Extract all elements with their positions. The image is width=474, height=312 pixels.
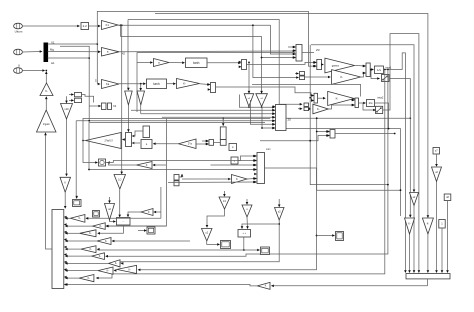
svg-text:K-: K- xyxy=(88,278,91,280)
block intm1 xyxy=(141,140,152,149)
wire Ukum to gain box xyxy=(22,25,80,28)
label com xyxy=(266,148,271,151)
wire row7 out xyxy=(65,262,109,265)
gain right mid xyxy=(232,175,248,184)
wire u2a poly xyxy=(110,220,117,223)
wire mmr in2 xyxy=(260,134,329,141)
wire A1 down xyxy=(127,105,130,132)
inport 2 xyxy=(14,49,23,55)
wire row2 in xyxy=(106,225,167,228)
wire 1Jb top xyxy=(223,191,226,197)
label X1 xyxy=(51,41,55,45)
wire Kc mux xyxy=(352,99,355,102)
wire row6 out xyxy=(65,255,92,258)
saturation S2 xyxy=(75,98,82,102)
gain Km up xyxy=(40,83,53,96)
gain 1J down xyxy=(114,175,126,190)
wire sw1 out xyxy=(390,79,411,120)
wire M4 int2 xyxy=(359,102,367,105)
wire y128 right xyxy=(388,128,401,216)
wire u9 down xyxy=(413,206,416,274)
svg-text:K-: K- xyxy=(336,96,339,100)
wire row5 out xyxy=(65,248,81,251)
wire A2 down xyxy=(140,105,142,114)
wire G3 tanh2 xyxy=(119,82,146,85)
gain x10 tri xyxy=(61,104,73,120)
wire Kt M2 xyxy=(200,83,211,86)
wire vs1b xyxy=(132,142,140,144)
svg-text:Z3: Z3 xyxy=(316,48,320,52)
wire vs1 xyxy=(132,131,143,136)
block X2 pair xyxy=(102,103,112,110)
wire 2.2 to G1 xyxy=(89,25,101,28)
gain row4 xyxy=(97,238,111,245)
wire tanh1 out xyxy=(207,62,241,65)
label Z5 xyxy=(288,118,292,122)
svg-text:25: 25 xyxy=(288,118,292,122)
deriv B1 xyxy=(244,94,254,107)
wire z5 w2 xyxy=(131,109,275,112)
wire sat out xyxy=(82,95,94,103)
svg-text:K-: K- xyxy=(100,226,103,228)
mux com xyxy=(254,153,264,184)
wire sw2 in xyxy=(363,103,376,111)
wire teta1b xyxy=(105,70,388,258)
wire y84 line xyxy=(252,84,361,96)
wire mux to 1gain xyxy=(44,132,51,249)
wire sc6 in xyxy=(317,234,336,237)
wire u10 down xyxy=(435,182,438,274)
wire x161 vert xyxy=(160,187,162,218)
switch SW1 xyxy=(382,75,390,82)
block const1 xyxy=(439,220,445,229)
wire u2a top xyxy=(108,197,111,203)
wire P1 out xyxy=(321,63,324,66)
svg-text:teta2: teta2 xyxy=(378,96,384,100)
wire Kd up xyxy=(328,104,354,109)
wire gama mux xyxy=(355,65,366,68)
wire sw2 out xyxy=(383,34,421,273)
wire loop1 xyxy=(83,119,270,164)
wire u2c sc4 xyxy=(207,241,220,246)
label U xyxy=(18,64,20,68)
wire P2 in2 xyxy=(252,24,299,78)
wire x128 down xyxy=(127,20,130,91)
gain a2 xyxy=(154,59,170,67)
gain row5 xyxy=(81,246,96,253)
mux M2 xyxy=(208,83,216,93)
wire tanh2 Kt xyxy=(167,82,177,85)
wire B2 down xyxy=(261,106,263,108)
gain Kd xyxy=(313,104,328,114)
gain Kt xyxy=(177,79,200,89)
wire M1 out xyxy=(247,61,317,64)
wire x311 down xyxy=(309,45,311,99)
wire z5 w1 xyxy=(239,95,275,109)
svg-text:K-: K- xyxy=(408,222,411,225)
block int1 xyxy=(375,66,384,74)
wire M2 out xyxy=(216,87,315,97)
gain row7 xyxy=(109,260,120,267)
svg-text:1/s: 1/s xyxy=(377,68,382,72)
wire M4b out xyxy=(318,97,326,100)
scope SC3 xyxy=(147,227,155,234)
gain row3 xyxy=(80,230,96,237)
scope SC4 xyxy=(221,241,231,249)
wire u8 down xyxy=(446,201,449,274)
gain KL left xyxy=(141,209,153,216)
deriv A2 xyxy=(137,91,145,105)
wire bot long xyxy=(271,285,428,288)
svg-text:K-: K- xyxy=(115,263,118,265)
deriv B2 xyxy=(256,94,268,107)
product boxes P3 xyxy=(304,103,309,111)
block L1 xyxy=(231,157,238,164)
wire P2 in1 xyxy=(295,72,299,75)
wire SM1 in2 xyxy=(197,143,209,146)
svg-text:teta1: teta1 xyxy=(386,65,392,69)
gain 1Jb down xyxy=(219,197,230,209)
block sum b xyxy=(238,230,251,238)
svg-text:X2: X2 xyxy=(113,104,117,108)
wire com bottom xyxy=(168,181,256,184)
svg-text:Mg: Mg xyxy=(50,48,54,52)
mux Z5 xyxy=(273,105,286,131)
svg-text:tanh: tanh xyxy=(153,82,159,86)
svg-text:K-: K- xyxy=(317,107,320,111)
wire sw1 in xyxy=(370,69,380,80)
svg-text:2.2: 2.2 xyxy=(83,24,88,28)
gain ub down xyxy=(242,205,252,217)
wire sc3 in xyxy=(138,229,147,232)
wire X1 vertical top xyxy=(97,11,316,67)
wire z5 out xyxy=(286,118,412,217)
gain u9 down xyxy=(410,193,419,206)
wire bot long2 xyxy=(65,283,257,286)
wire const1 down xyxy=(441,228,444,273)
circle box xyxy=(99,159,106,166)
wire mmr in1b xyxy=(316,130,329,133)
wire Z3 out xyxy=(302,52,314,54)
wire Mg to G2 xyxy=(48,51,101,54)
wire G2 out xyxy=(119,50,296,53)
wire int1 out xyxy=(384,53,407,273)
wire teta2 feedback xyxy=(275,103,388,130)
wire 2a out xyxy=(153,142,179,145)
wire sc1 in xyxy=(76,121,79,199)
mux M1 xyxy=(239,60,247,70)
wire r1 down xyxy=(408,234,411,273)
wire z5 w5 xyxy=(76,120,275,123)
scope SC6 xyxy=(336,232,344,241)
wire u2b down xyxy=(121,220,281,265)
wire r2 down xyxy=(427,234,430,273)
mux Z3 xyxy=(293,45,302,62)
svg-text:K-: K- xyxy=(79,218,82,220)
label 42 xyxy=(122,52,125,56)
gain row1 xyxy=(70,215,85,223)
wire sum sc5 xyxy=(243,237,260,251)
wire circ long xyxy=(106,159,257,162)
gain bottom left tri xyxy=(257,282,270,289)
gain G2 xyxy=(102,48,120,57)
gain small mid xyxy=(137,162,153,169)
svg-text:K1: K1 xyxy=(106,23,110,27)
block u7 xyxy=(433,148,440,155)
wire ub sum xyxy=(246,217,249,229)
wire 1J out xyxy=(118,189,121,217)
wire G1 out xyxy=(118,24,296,55)
block u8 xyxy=(444,194,451,201)
svg-text:K-: K- xyxy=(427,222,430,225)
wire x10 down xyxy=(65,119,68,176)
deriv A1 xyxy=(125,91,133,105)
wire X1 route xyxy=(48,43,101,85)
wire com in1 xyxy=(211,164,257,167)
wire x121 long xyxy=(120,25,123,174)
block intm2 xyxy=(229,144,237,151)
svg-text:com: com xyxy=(266,148,271,151)
svg-text:gama: gama xyxy=(332,63,339,67)
wire P3 in2 xyxy=(298,107,303,110)
block tanh1 xyxy=(186,58,208,68)
wire B1 down xyxy=(248,106,250,108)
wire M3 int1 xyxy=(370,68,374,71)
block poly xyxy=(117,218,131,226)
gain Kdown xyxy=(60,177,71,192)
gain u2a down xyxy=(105,204,115,221)
svg-text:K-: K- xyxy=(89,233,92,235)
label teta1 xyxy=(386,65,392,69)
svg-text:K-: K- xyxy=(107,270,110,272)
mux M4b xyxy=(311,93,317,103)
gain 2kalJ xyxy=(86,133,122,149)
mux P1 xyxy=(314,59,322,69)
svg-text:U: U xyxy=(18,64,20,68)
wire row3 out xyxy=(65,232,80,235)
gain u2b down xyxy=(275,208,285,221)
mux M3 xyxy=(363,63,370,77)
wire Z3 in1 xyxy=(288,46,296,49)
wire A2 top xyxy=(139,84,142,91)
wire suba in xyxy=(137,61,153,64)
wire poly to r3 xyxy=(97,225,123,235)
gain G1 xyxy=(102,21,119,30)
svg-text:tanh: tanh xyxy=(193,61,199,65)
label teta2 xyxy=(378,96,384,100)
mux mid right xyxy=(327,130,335,139)
wire Kdown out xyxy=(64,192,67,209)
wire mmr in1 xyxy=(316,117,402,191)
wire com out xyxy=(138,168,318,271)
wire 1g to Km xyxy=(45,96,48,110)
gain 1/gain up xyxy=(37,110,57,132)
wire L1 out xyxy=(238,155,256,161)
wire a2 tanh xyxy=(169,61,185,64)
label X2 xyxy=(113,104,117,108)
svg-text:1/s: 1/s xyxy=(368,101,373,105)
gain gama xyxy=(325,58,355,73)
label Z3 xyxy=(316,48,320,52)
wire u2b top xyxy=(278,199,281,207)
wire Km up xyxy=(45,71,48,83)
mux M5 xyxy=(126,133,135,147)
gain u10 down xyxy=(432,167,442,182)
saturation S1 xyxy=(75,93,82,97)
wire y44 right xyxy=(311,45,415,193)
svg-text:Ka: Ka xyxy=(106,82,110,86)
wire row2 out xyxy=(65,225,93,228)
gain row8 xyxy=(98,267,113,274)
svg-text:K-: K- xyxy=(45,89,48,93)
svg-text:K-: K- xyxy=(340,75,343,79)
gain G3 xyxy=(102,80,120,89)
scope SC5 xyxy=(261,247,270,255)
wire U to node xyxy=(22,69,47,72)
product boxes P2 xyxy=(300,72,305,80)
wire z5 w6 xyxy=(250,100,275,126)
wire mmr out xyxy=(335,133,396,135)
wire Kb mux xyxy=(361,72,366,77)
wire int2 out xyxy=(375,102,378,104)
svg-text:K: K xyxy=(146,163,148,167)
svg-text:K-: K- xyxy=(99,256,102,258)
inport Ukum xyxy=(14,23,23,33)
wire com in3 xyxy=(89,168,256,171)
mux M4 xyxy=(352,98,358,108)
wire u2b sum xyxy=(241,224,280,229)
gain row6 xyxy=(92,253,105,260)
label w1 xyxy=(51,61,55,65)
svg-text:+ +: + + xyxy=(243,232,247,235)
svg-text:x10: x10 xyxy=(64,107,69,111)
wire P3 Kd xyxy=(309,107,312,110)
svg-text:K-: K- xyxy=(183,81,186,85)
wire sat2 input xyxy=(69,99,74,102)
wire row8b out xyxy=(114,269,117,272)
svg-text:K-: K- xyxy=(105,241,108,243)
gain Kb xyxy=(332,70,361,85)
wire row9 out xyxy=(65,277,79,280)
wire z5 w4 xyxy=(162,116,275,119)
wire row1 out xyxy=(65,217,71,220)
wire pair out xyxy=(179,174,183,177)
svg-text:2*a: 2*a xyxy=(188,142,192,146)
wire SM1 out xyxy=(214,142,221,144)
wire gsm in xyxy=(152,164,166,167)
label 51 xyxy=(95,80,98,83)
inport U xyxy=(14,68,23,74)
block int2 xyxy=(367,100,375,107)
wire P3 in1 xyxy=(279,103,302,106)
wire M5 out xyxy=(122,138,126,141)
wire x10 top xyxy=(65,96,68,103)
wire y36 xyxy=(121,37,296,59)
gain 2a xyxy=(179,139,197,149)
wire bar out xyxy=(427,279,429,286)
wire top y13 xyxy=(155,14,429,219)
svg-text:Ukum: Ukum xyxy=(15,30,23,34)
wire grm out xyxy=(247,177,256,180)
wire row8 out xyxy=(65,269,98,272)
mux big left xyxy=(52,210,67,289)
scope SC1 xyxy=(73,200,82,207)
wire u7 down xyxy=(435,154,438,167)
block pair mid xyxy=(174,175,179,186)
wire ub top xyxy=(246,199,249,205)
gain box 2.2 xyxy=(81,23,89,30)
wire x166 vertical xyxy=(105,119,166,228)
gain row2 xyxy=(93,223,106,230)
wire w1 route xyxy=(48,57,91,121)
svg-text:1/gain: 1/gain xyxy=(43,123,50,126)
label Mg xyxy=(50,48,54,52)
mux bottom bar xyxy=(406,274,450,279)
wire z5 w3 xyxy=(141,112,275,115)
wire 1Jb down xyxy=(206,209,225,228)
wire w1 branch xyxy=(60,46,89,58)
wire z5 w7 xyxy=(261,107,275,130)
wire row4 out xyxy=(65,240,97,243)
wire subsys border xyxy=(137,53,295,112)
wire loop2 xyxy=(88,123,265,171)
block vsmall2 xyxy=(220,127,226,145)
demux D1 xyxy=(44,43,48,62)
wire teta1 feedback xyxy=(96,70,385,280)
svg-text:K: K xyxy=(236,177,238,181)
gain u2c down xyxy=(202,229,213,242)
wire vsmall2 top xyxy=(222,118,225,127)
svg-text:w1: w1 xyxy=(51,61,55,65)
mux SM1 xyxy=(206,140,213,146)
gain r2 down xyxy=(422,218,433,234)
wire x311 deep xyxy=(310,98,389,186)
gain row8b xyxy=(117,265,137,273)
switch SW2 xyxy=(376,106,383,113)
svg-text:2*ka*l/J: 2*ka*l/J xyxy=(105,139,114,142)
wire x120 seg xyxy=(120,25,122,36)
wire P2 out xyxy=(305,76,331,79)
wire into X2 xyxy=(89,105,101,108)
wire row1 in xyxy=(86,217,161,220)
wire inport2 to demux xyxy=(22,50,42,53)
wire SM1 in1 xyxy=(202,140,209,143)
wire M4b in2 xyxy=(310,98,314,102)
wire KL out xyxy=(127,212,141,217)
scope SC2 xyxy=(93,211,100,218)
block vsmall1 xyxy=(143,126,150,138)
svg-text:K-: K- xyxy=(128,269,131,271)
wire y19 xyxy=(128,20,279,105)
wire grm in xyxy=(182,178,231,181)
wire B2 top xyxy=(260,57,263,94)
block tanh2 xyxy=(147,79,167,89)
wire 2kalJ out xyxy=(82,140,85,142)
gain Kc xyxy=(328,91,355,105)
svg-text:...: ... xyxy=(122,220,124,223)
wire sat inputs xyxy=(69,93,74,96)
svg-text:K-: K- xyxy=(90,249,93,251)
wire B1 top xyxy=(248,62,251,94)
wire row4 in xyxy=(112,240,190,243)
wire circ in xyxy=(107,161,137,165)
wire r5 extend xyxy=(97,248,244,251)
wire KL in xyxy=(153,211,161,214)
gain r1 down xyxy=(405,218,415,234)
gain row9 xyxy=(79,275,94,282)
